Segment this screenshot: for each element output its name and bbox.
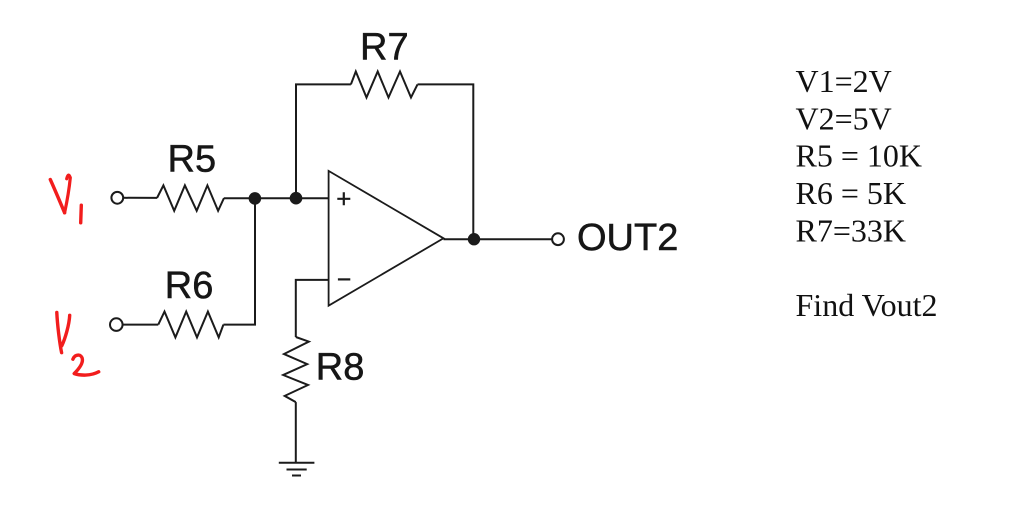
wire bbox=[224, 197, 329, 199]
wire bbox=[418, 84, 474, 239]
svg-text:V2=5V: V2=5V bbox=[796, 100, 892, 136]
svg-text:R6: R6 bbox=[165, 265, 214, 307]
wire bbox=[444, 238, 553, 240]
annotation V2 (red) bbox=[57, 313, 62, 353]
resistor R6 bbox=[158, 312, 223, 338]
resistor R7 bbox=[351, 72, 418, 98]
svg-text:R7: R7 bbox=[360, 27, 409, 69]
svg-text:R5: R5 bbox=[168, 139, 217, 181]
op-amp minus pin bbox=[338, 278, 350, 280]
op-amp plus pin bbox=[337, 192, 350, 205]
node junction A bbox=[250, 193, 261, 204]
op-amp U1 bbox=[329, 171, 444, 306]
svg-text:R7=33K: R7=33K bbox=[796, 212, 907, 248]
output terminal OUT2 bbox=[552, 233, 564, 245]
annotation V1 (red) bbox=[50, 180, 64, 213]
svg-text:R6 = 5K: R6 = 5K bbox=[796, 175, 907, 211]
resistor R8 bbox=[283, 337, 309, 402]
svg-text:OUT2: OUT2 bbox=[577, 217, 678, 259]
input terminal V2 bbox=[110, 318, 123, 331]
resistor R5 bbox=[157, 185, 224, 210]
input terminal V1 bbox=[111, 192, 123, 204]
node output junction bbox=[469, 234, 479, 244]
svg-text:R5 = 10K: R5 = 10K bbox=[796, 138, 923, 174]
svg-text:Find Vout2: Find Vout2 bbox=[796, 287, 938, 323]
node junction B bbox=[291, 193, 302, 204]
ground bbox=[279, 463, 315, 476]
svg-text:V1=2V: V1=2V bbox=[796, 63, 892, 99]
svg-text:R8: R8 bbox=[316, 347, 365, 389]
wire bbox=[296, 84, 351, 198]
wire bbox=[295, 402, 297, 463]
annotation V2 subscript 2 (red) bbox=[73, 355, 99, 375]
annotation V1 subscript 1 (red) bbox=[79, 205, 83, 223]
wire bbox=[296, 280, 329, 337]
wire bbox=[123, 197, 157, 199]
wire bbox=[123, 324, 159, 326]
wire bbox=[223, 198, 255, 324]
